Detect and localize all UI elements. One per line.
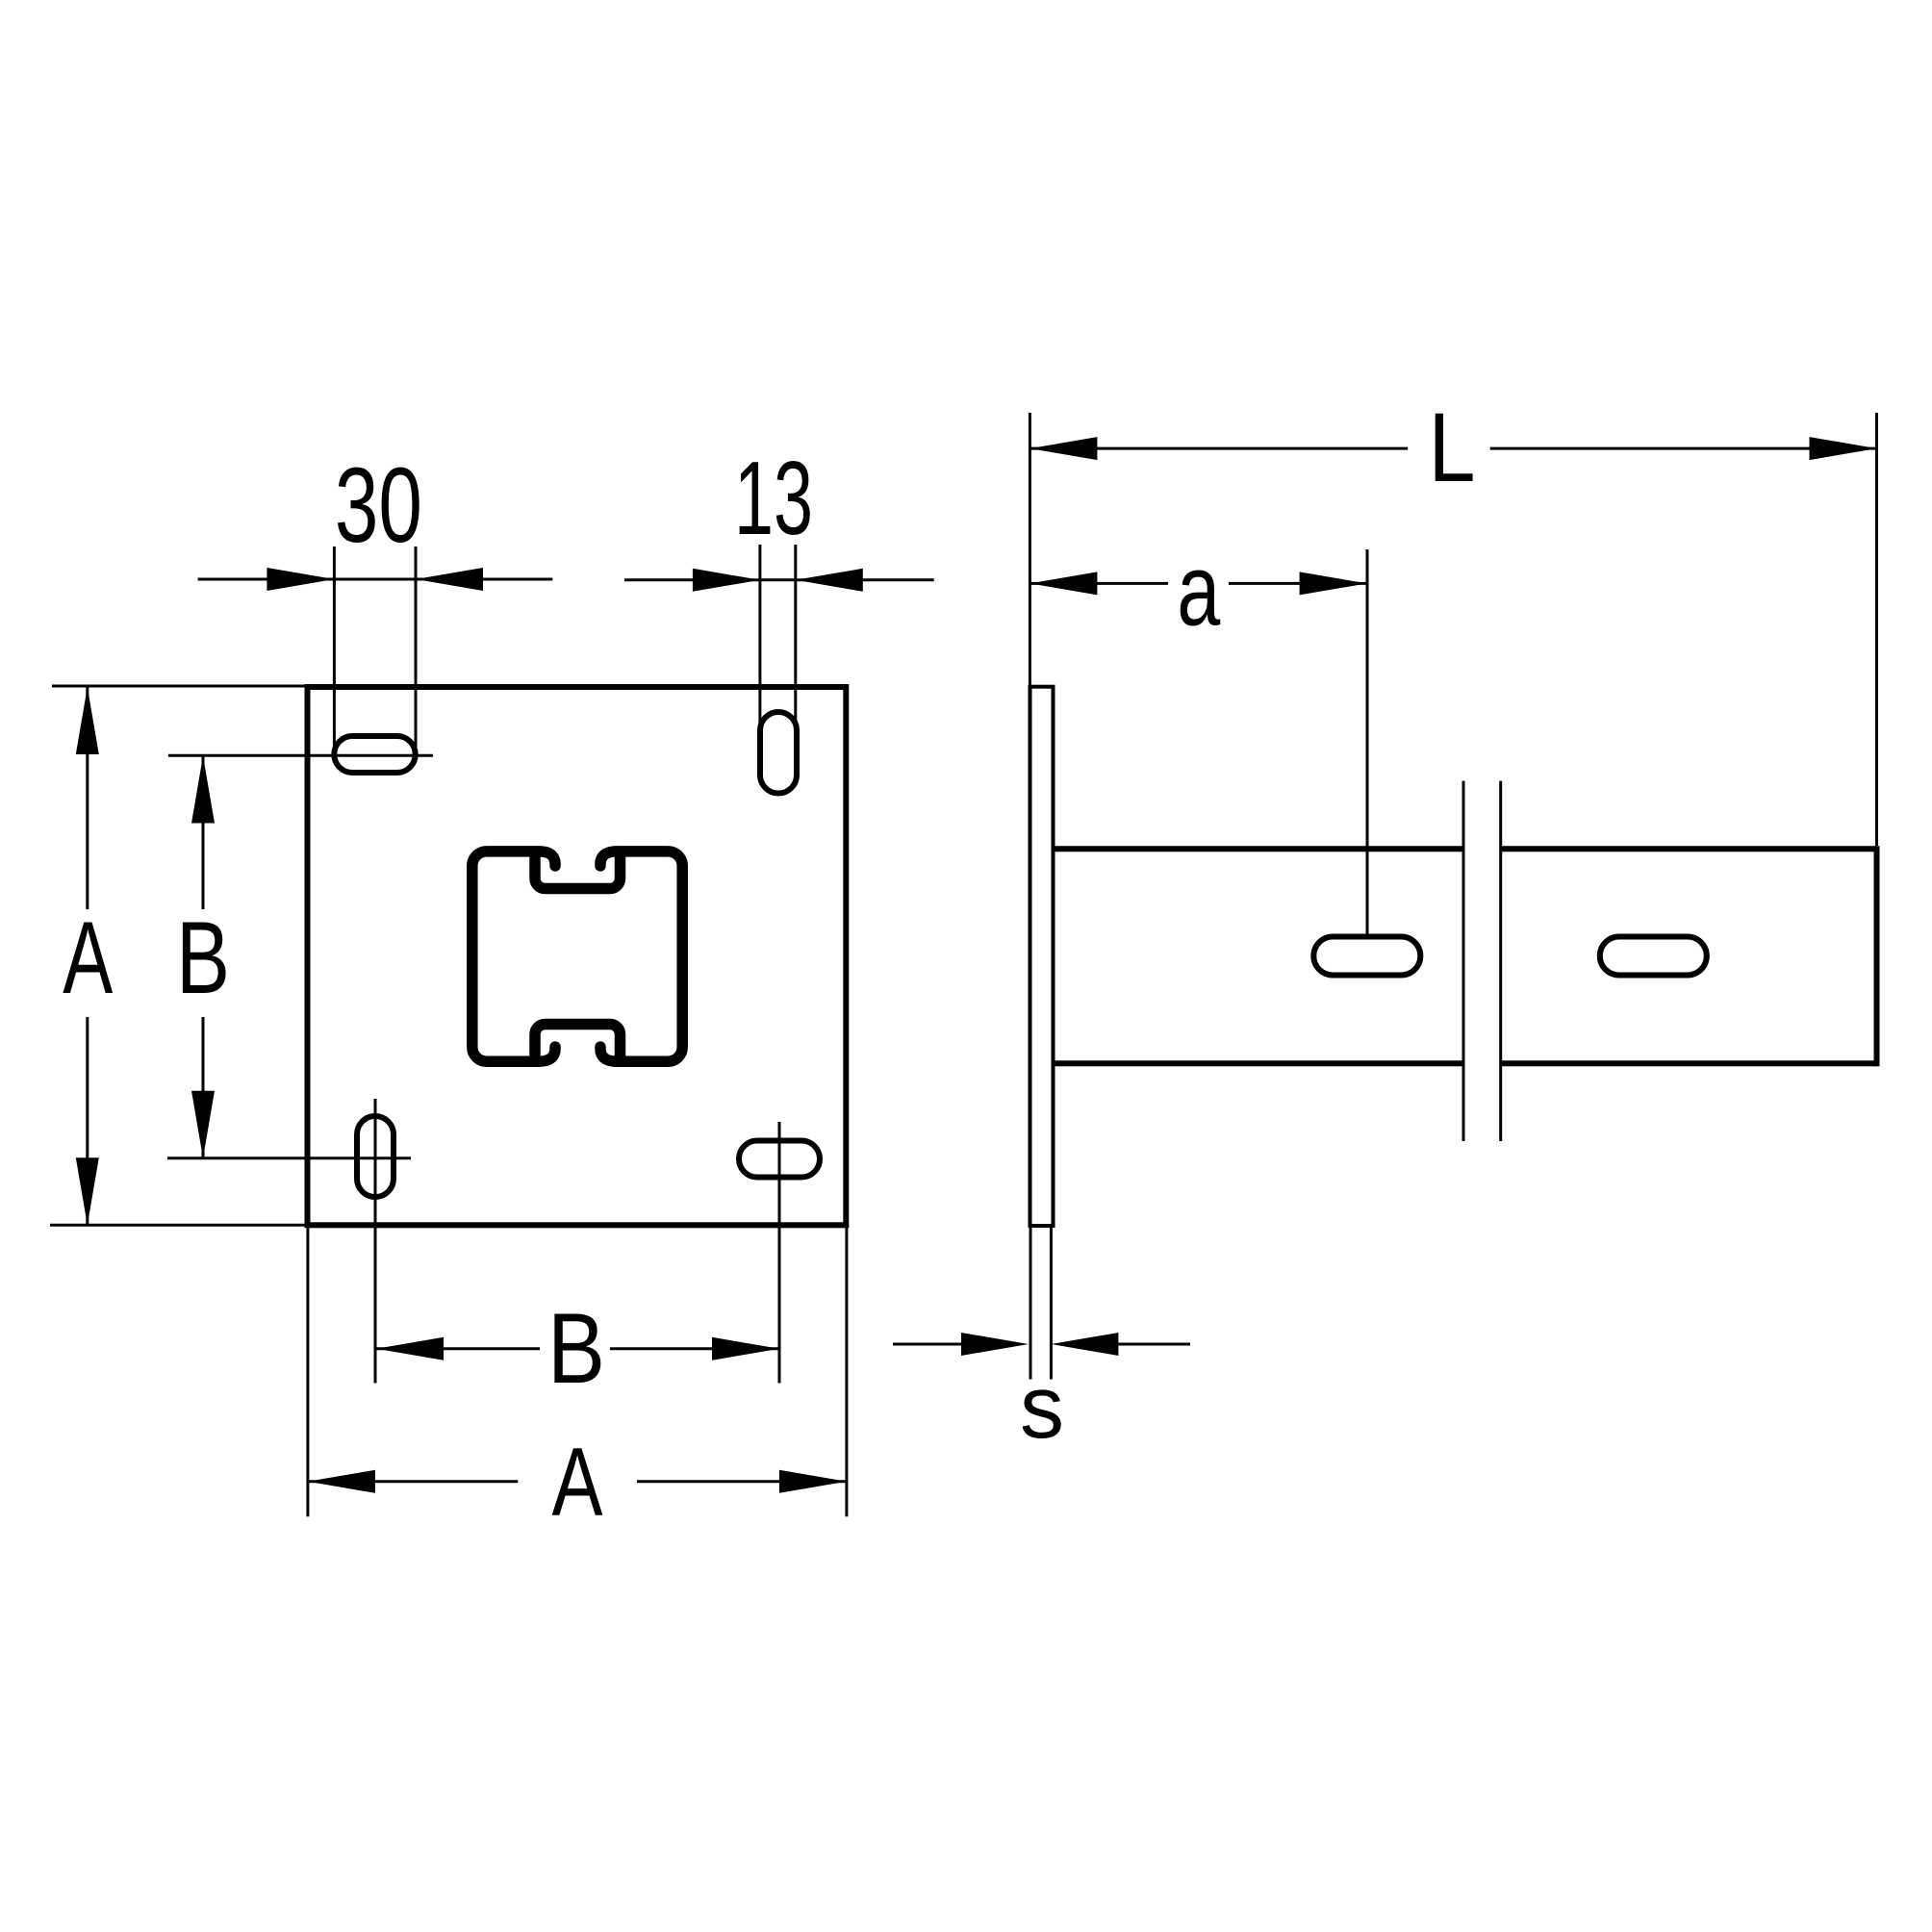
arrowhead 13 left bbox=[693, 569, 760, 592]
extension line slot bottom-left vertical bbox=[374, 1099, 377, 1384]
arrowhead B bottom right bbox=[712, 1337, 779, 1360]
dimension A bottom line right segment bbox=[637, 1480, 847, 1483]
arrowhead A down bbox=[76, 1157, 99, 1225]
central profile cutout bottom channel (staple) bbox=[535, 1025, 621, 1059]
arrowhead 13 right bbox=[796, 569, 863, 592]
dimension s line right bbox=[1118, 1343, 1190, 1346]
arrowhead A up bbox=[76, 687, 99, 754]
rail top edge right segment bbox=[1501, 846, 1877, 852]
arrowhead B bottom left bbox=[376, 1337, 444, 1360]
dimension A vertical line lower segment bbox=[86, 1017, 89, 1225]
extension line 30 left bbox=[333, 547, 336, 756]
extension line 13 right bbox=[794, 545, 797, 724]
extension line a right bbox=[1366, 549, 1369, 934]
arrowhead a left bbox=[1030, 572, 1097, 595]
dimension L line left segment bbox=[1030, 447, 1408, 450]
arrowhead 30 left bbox=[267, 568, 334, 591]
arrowhead s right bbox=[1051, 1333, 1118, 1356]
arrowhead 30 right bbox=[416, 568, 483, 591]
dimension A vertical line upper segment bbox=[86, 687, 89, 909]
slot bottom-left (vertical obround) bbox=[357, 1116, 394, 1197]
rail bottom edge right segment bbox=[1501, 1060, 1877, 1066]
dimension L line right segment bbox=[1490, 447, 1877, 450]
dimension s line left bbox=[893, 1343, 961, 1346]
extension line L left (above flange) bbox=[1029, 413, 1031, 685]
arrowhead B down bbox=[191, 1091, 215, 1158]
central profile cutout left half bbox=[472, 852, 555, 1061]
arrowhead A bottom left bbox=[308, 1470, 375, 1493]
break line right bbox=[1499, 781, 1502, 1141]
arrowhead L left bbox=[1030, 437, 1097, 460]
extension line plate top-left bbox=[52, 685, 308, 688]
rail top edge left segment bbox=[1055, 846, 1464, 852]
dimension B bottom line left segment bbox=[376, 1347, 540, 1350]
slot top-right (vertical obround) bbox=[760, 712, 797, 794]
rail slot 1 bbox=[1313, 937, 1420, 976]
flange side view (thin vertical plate) bbox=[1030, 687, 1054, 1226]
svg-text:a: a bbox=[1177, 533, 1220, 647]
svg-text:B: B bbox=[547, 1293, 605, 1405]
extension line s left (below flange) bbox=[1030, 1228, 1032, 1380]
arrowhead B up bbox=[191, 756, 215, 824]
rail bottom edge left segment bbox=[1055, 1060, 1464, 1066]
extension line L right bbox=[1875, 413, 1878, 846]
dimension 30 line bbox=[198, 578, 553, 581]
extension line lower slot row (B bottom) bbox=[167, 1157, 411, 1159]
dimension a line left segment bbox=[1030, 582, 1168, 585]
dimension 13 line bbox=[624, 578, 934, 581]
slot top-left (horizontal obround) bbox=[334, 736, 415, 773]
svg-text:B: B bbox=[176, 900, 230, 1015]
break line left bbox=[1462, 781, 1465, 1141]
plate outline (front view square plate) bbox=[308, 687, 847, 1225]
extension line A bottom left bbox=[306, 1225, 309, 1516]
svg-text:A: A bbox=[63, 900, 113, 1015]
svg-text:s: s bbox=[1020, 1357, 1064, 1457]
svg-text:L: L bbox=[1429, 393, 1476, 502]
rail slot 2 bbox=[1600, 937, 1707, 976]
central profile cutout top channel (staple) bbox=[535, 854, 621, 889]
extension line A bottom right bbox=[845, 1225, 848, 1516]
dimension B vertical line upper segment bbox=[202, 756, 205, 910]
extension line plate bottom-left bbox=[50, 1224, 308, 1227]
arrowhead A bottom right bbox=[779, 1470, 847, 1493]
central profile cutout right half bbox=[600, 852, 682, 1061]
dimension B bottom line right segment bbox=[610, 1347, 779, 1350]
extension line upper slot row (B top) bbox=[168, 754, 433, 757]
arrowhead a right bbox=[1300, 572, 1367, 595]
svg-text:13: 13 bbox=[734, 440, 813, 557]
dimension a line right segment bbox=[1229, 582, 1367, 585]
extension line slot bottom-right vertical bbox=[778, 1122, 781, 1384]
dimension A bottom line left segment bbox=[308, 1480, 518, 1483]
rail right end bbox=[1874, 846, 1880, 1066]
arrowhead s left bbox=[961, 1333, 1029, 1356]
slot bottom-right (horizontal obround) bbox=[739, 1141, 820, 1178]
dimension B vertical line lower segment bbox=[202, 1017, 205, 1158]
arrowhead L right bbox=[1810, 437, 1877, 460]
extension line s right (below flange) bbox=[1050, 1228, 1053, 1380]
svg-text:A: A bbox=[552, 1429, 603, 1537]
extension line 13 left bbox=[758, 545, 761, 724]
svg-text:30: 30 bbox=[335, 446, 422, 565]
extension line 30 right bbox=[415, 547, 418, 756]
